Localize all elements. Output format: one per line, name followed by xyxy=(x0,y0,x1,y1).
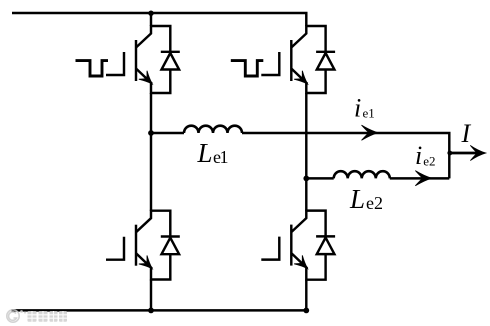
svg-text:e2: e2 xyxy=(423,153,435,168)
svg-text:e1: e1 xyxy=(213,147,227,167)
svg-text:i: i xyxy=(354,93,361,122)
svg-text:L: L xyxy=(197,138,213,168)
svg-text:I: I xyxy=(461,119,472,148)
svg-text:L: L xyxy=(349,184,365,214)
svg-text:i: i xyxy=(415,141,422,170)
svg-text:e2: e2 xyxy=(366,193,383,213)
svg-text:e1: e1 xyxy=(363,105,375,120)
